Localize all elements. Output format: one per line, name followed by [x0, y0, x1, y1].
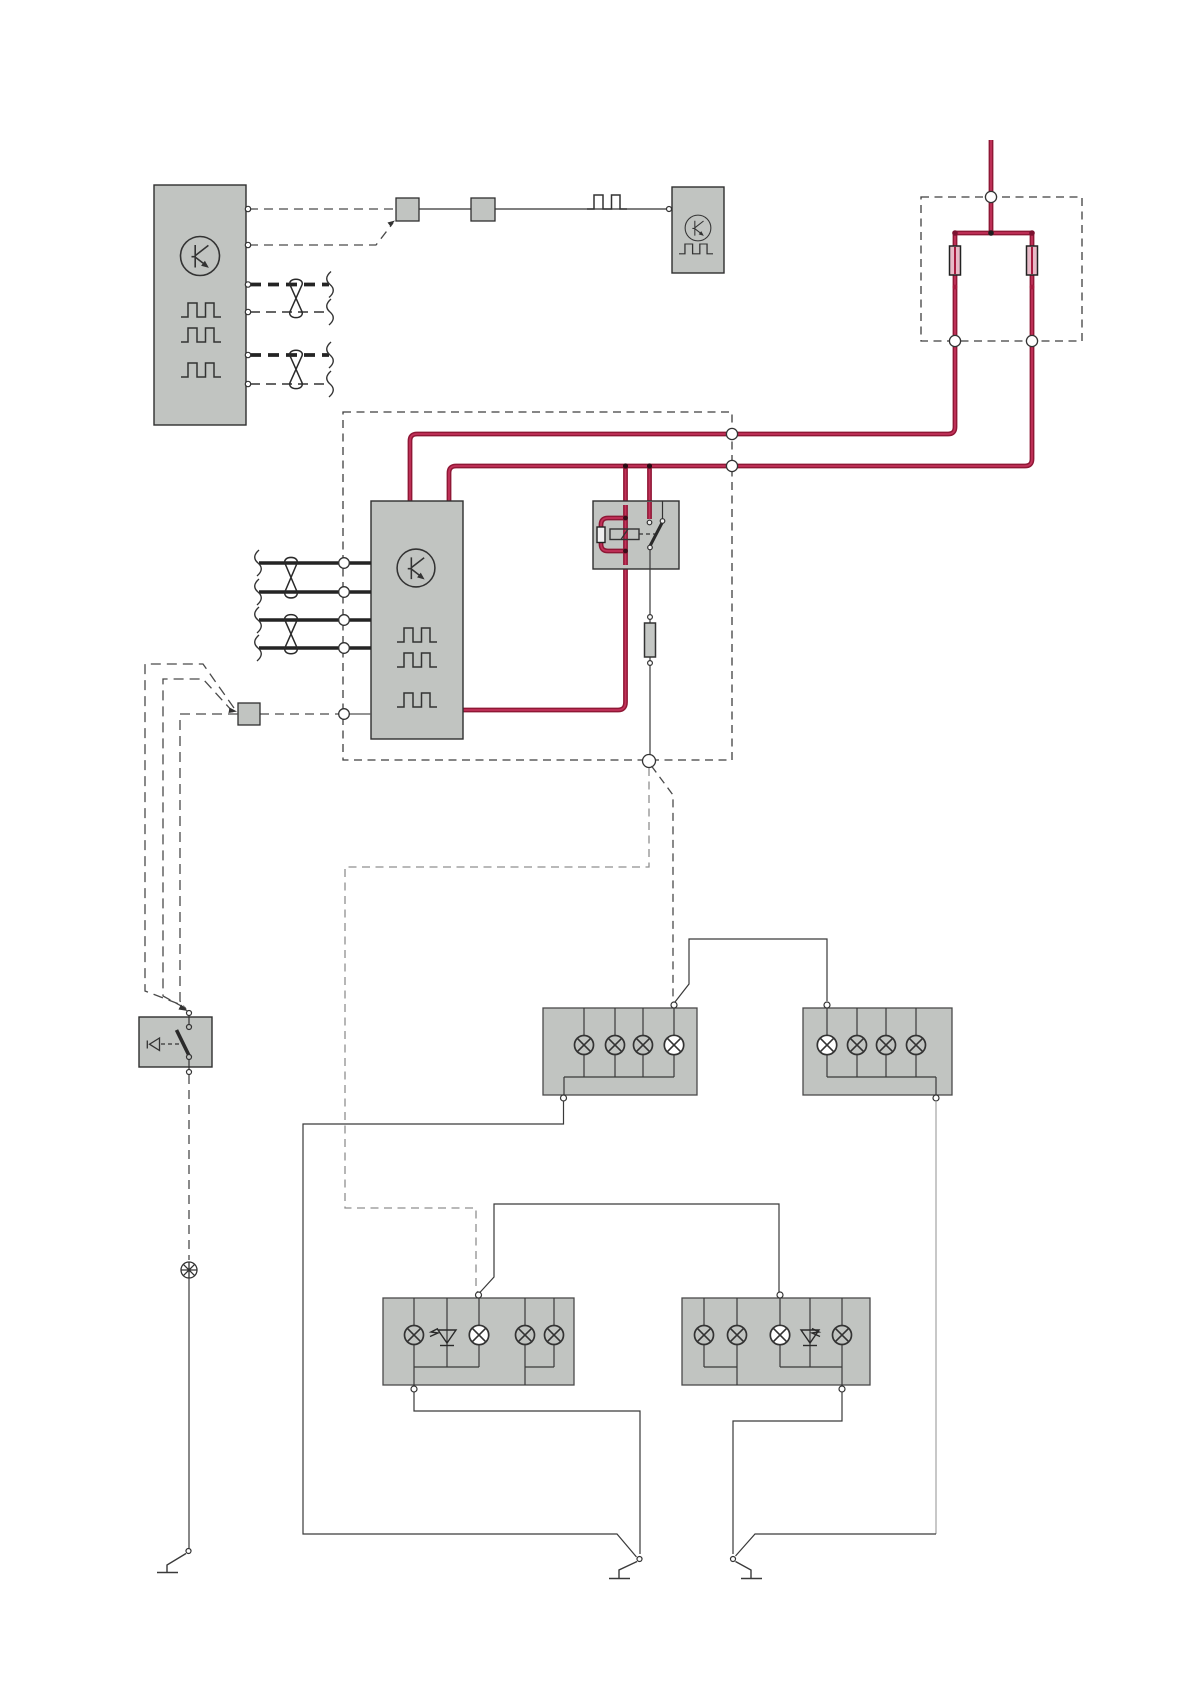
switch fixed contact inside [187, 1025, 192, 1030]
left bottom lamp cluster box (rear lamps) [383, 1298, 574, 1385]
module A pin 4 [245, 309, 250, 314]
wire: ECU input 3 thick [259, 618, 371, 621]
connector node ECU pin 4 [339, 643, 350, 654]
twisted-pair symbol lower pair module A [290, 350, 303, 388]
junction dot bar left end [952, 230, 958, 236]
switch internal stubs [188, 1016, 190, 1069]
wire: red distribution bar in fuse box [955, 231, 1032, 236]
wire: red relay supply branch down through relay to ECU output [463, 466, 626, 710]
lamp 1 left cluster [575, 1036, 594, 1055]
wire: red feed through left fuse down and across to ECU [410, 233, 955, 501]
relay actuation dashed link [639, 533, 656, 535]
junction dot coil bottom [623, 549, 628, 554]
wire: red branch to relay switch contact [647, 466, 652, 519]
twisted pair symbol ECU upper [285, 557, 298, 597]
junction dot red at x626 [623, 463, 628, 468]
ground G2 node [637, 1557, 642, 1562]
squiggle ECU wire 3 [255, 607, 262, 633]
cable break squiggle pin 6 [327, 371, 334, 397]
wire: ECU input 2 thick [259, 590, 371, 593]
node right rear cluster bottom [839, 1386, 845, 1392]
squiggle ECU wire 4 [255, 635, 262, 661]
wire: red stub inside relay [647, 502, 652, 519]
switch actuator triangle symbol [147, 1038, 159, 1051]
module A pin 6 [245, 381, 250, 386]
relay coil diagonal [621, 529, 628, 540]
connector node ECU pin 5 [339, 709, 350, 720]
junction dot below fuse F2 [1030, 285, 1035, 290]
LED direction indicator left rear [430, 1329, 456, 1346]
lamp 1 left rear cluster [405, 1326, 424, 1345]
node left cluster top [671, 1002, 677, 1008]
lamp 3 left rear cluster [516, 1326, 535, 1345]
ground G3 symbol [736, 1562, 763, 1579]
square wave symbol 1 in module A [181, 303, 221, 317]
dropping resistor in relay [597, 527, 605, 543]
wire: dashed from switch to indicator lamp [188, 1075, 190, 1260]
lamp 3 right rear cluster (white) [770, 1325, 789, 1344]
wire: thick dashed twisted-pair lead A (module A pin 3) [250, 283, 329, 287]
module A pin 5 [245, 352, 250, 357]
square wave label on wire [587, 195, 627, 209]
switch contact above box [187, 1011, 192, 1016]
ECU box (lighting control module) [371, 501, 463, 739]
square wave symbol 2 in ECU [397, 653, 437, 667]
square wave symbol 3 in module A [181, 363, 221, 377]
lamp 4 right cluster [907, 1036, 926, 1055]
twisted-pair symbol upper pair module A [290, 279, 303, 317]
junction dot battery bar [988, 230, 994, 236]
right middle lamp cluster box [803, 1008, 952, 1095]
wire: solid link between left and right middle lamp clusters [675, 939, 827, 1002]
wire: thin dashed twisted-pair lead D (module A pin 6) [250, 383, 329, 385]
module A pin 2 [245, 242, 250, 247]
relay coil [610, 529, 639, 540]
square wave symbol in module B [679, 244, 713, 254]
module A pin 3 [245, 282, 250, 287]
turn signal switch box [139, 1017, 212, 1067]
relay armature pivot [648, 545, 653, 550]
wire: gray dashed feed from relay node to left front lamp cluster [345, 768, 649, 1293]
wire: solid segment into ECU pin 5 [338, 713, 371, 715]
squiggle ECU wire 1 [255, 550, 262, 576]
transistor symbol in module B [685, 215, 711, 241]
wire: dashed control line 2 (S3 to switch) [163, 679, 233, 1008]
lamp 2 left rear cluster (white) [469, 1325, 488, 1344]
wire: dashed signal from module A pin 2 angling up to connector S1 [249, 223, 393, 245]
wire: dashed signal from module A pin 1 to connector S1 [249, 208, 394, 210]
junction dot below fuse F1 [953, 285, 958, 290]
junction dot bar right end [1029, 230, 1035, 236]
wire: right middle cluster across to ground G3 [736, 1534, 937, 1556]
right middle cluster internal wires [827, 1008, 936, 1095]
module A pin 1 [245, 206, 250, 211]
node left rear cluster top [476, 1292, 482, 1298]
node above fuse F3 [648, 615, 653, 620]
red wire through relay redrawn over loop [623, 505, 628, 565]
connector node ECU pin 1 [339, 558, 350, 569]
node left cluster bottom [561, 1095, 567, 1101]
wire from S2 to module B [495, 208, 668, 210]
switch actuation dashed link [161, 1043, 179, 1045]
cable break squiggle pin 5 [327, 342, 334, 368]
inline connector S1 [396, 198, 419, 221]
LED direction indicator right rear [801, 1329, 820, 1346]
control module B box [672, 187, 724, 273]
module B pin [667, 207, 672, 212]
wire: solid link between bottom lamp clusters [479, 1204, 780, 1294]
transistor symbol in ECU [397, 549, 435, 587]
wire: right middle cluster down (light gray) [935, 1101, 937, 1534]
right bottom cluster internal wires [704, 1298, 842, 1386]
connector node at fuse box top [985, 191, 996, 202]
fuse F1 (left) [950, 246, 961, 275]
wire: dark dashed feed from relay node to left side lamp cluster [652, 766, 675, 1002]
left middle lamp cluster box [543, 1008, 697, 1095]
lamp 4 left cluster (position lamp, white) [664, 1035, 683, 1054]
ground G2 symbol [609, 1562, 637, 1579]
wire: dashed control line 1 (S3 to switch) [145, 664, 234, 1006]
squiggle ECU wire 2 [255, 579, 262, 605]
relay NO fixed contact [660, 519, 665, 524]
inline connector S2 [471, 198, 495, 221]
ground G3 node [731, 1557, 736, 1562]
node right cluster top [824, 1002, 830, 1008]
wire: dashed control line from connector S3 to ECU pin 5 [260, 713, 338, 715]
twisted pair symbol ECU lower [285, 615, 298, 654]
transistor symbol in module A [181, 237, 220, 276]
wire: red feed through right fuse down and across to ECU [449, 233, 1032, 501]
switch output node below box [187, 1070, 192, 1075]
junction dot coil top [623, 516, 628, 521]
arrowhead into connector S1 [388, 221, 396, 227]
left bottom cluster internal wires [414, 1298, 554, 1386]
wire: lamp to ground G1 [188, 1278, 190, 1548]
relay box [593, 501, 679, 569]
wire: red coil loop inside relay [601, 518, 626, 551]
wire: left rear cluster to ground G2 [414, 1392, 640, 1554]
connector node ECU pin 2 [339, 587, 350, 598]
wire: thick dashed twisted-pair lead C (module A pin 5) [250, 353, 329, 357]
fuse F3 [645, 623, 656, 657]
middle dashed box (lighting control unit boundary) [343, 412, 732, 760]
ground G1 node [186, 1549, 191, 1554]
connector node red wire upper at dashed border [726, 428, 737, 439]
lamp 3 right cluster [877, 1036, 896, 1055]
node below fuse F3 [648, 661, 653, 666]
wire: ECU input 4 thick [259, 646, 371, 649]
connector node fuse box bottom right [1026, 335, 1037, 346]
connector node fuse box bottom left [949, 335, 960, 346]
wire: dashed control line 3 (S3 to switch) [180, 714, 238, 1009]
lamp 4 left rear cluster [545, 1326, 564, 1345]
fuse F2 (right) [1027, 246, 1038, 275]
connector node ECU pin 3 [339, 615, 350, 626]
lamp 1 right cluster (position lamp, white) [817, 1035, 836, 1054]
wire: left middle cluster to ground G2 [303, 1101, 637, 1557]
square wave symbol 2 in module A [181, 328, 221, 342]
left middle cluster internal wires [564, 1008, 674, 1095]
node right rear cluster top [777, 1292, 783, 1298]
wire: thin dashed twisted-pair lead B (module A pin 4) [250, 311, 329, 313]
wire: battery feed red vertical into fuse box [989, 140, 994, 233]
wire: right rear cluster to ground G3 [733, 1392, 842, 1554]
cable break squiggle pin 3 [327, 272, 334, 298]
switch arm [177, 1030, 190, 1056]
lamp 3 left cluster [634, 1036, 653, 1055]
right bottom lamp cluster box (rear lamps) [682, 1298, 870, 1385]
big connector node at dashed box bottom [643, 755, 656, 768]
control module A box (top left) [154, 185, 246, 425]
wire: relay output down to fuse and node [649, 549, 651, 757]
inline connector S3 [238, 703, 260, 725]
square wave symbol 1 in ECU [397, 628, 437, 642]
relay NC contact (red feed end) [647, 520, 652, 525]
node right cluster bottom [933, 1095, 939, 1101]
node left rear cluster bottom [411, 1386, 417, 1392]
lamp 2 right cluster [848, 1036, 867, 1055]
lamp 2 right rear cluster [728, 1326, 747, 1345]
junction dot red at x649 [647, 463, 652, 468]
connector node red wire lower at dashed border [726, 460, 737, 471]
fuse holder dashed box (top right) [921, 197, 1082, 341]
square wave symbol 3 in ECU [397, 693, 437, 707]
relay fixed contact stub to box edge [662, 501, 664, 521]
wire from S1 to S2 [419, 208, 471, 210]
pilot indicator lamp [181, 1262, 197, 1278]
ground G1 symbol [157, 1554, 186, 1573]
wire: ECU input 1 thick [259, 561, 371, 564]
lamp 4 right rear cluster [833, 1326, 852, 1345]
lamp 2 left cluster [606, 1036, 625, 1055]
switch pivot contact [187, 1055, 192, 1060]
cable break squiggle pin 4 [327, 299, 334, 325]
lamp 1 right rear cluster [695, 1326, 714, 1345]
relay switch arm [650, 521, 663, 546]
arrowhead into switch contact [179, 1005, 189, 1012]
arrowhead into S3 [229, 708, 238, 714]
